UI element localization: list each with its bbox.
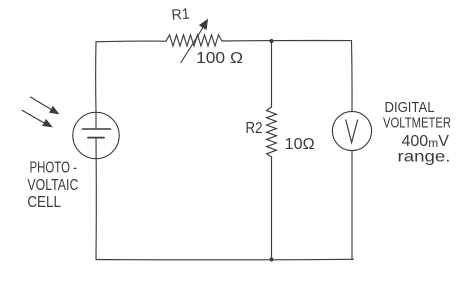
svg-text:VOLTMETER: VOLTMETER: [383, 115, 451, 132]
svg-text:PHOTO -: PHOTO -: [30, 159, 78, 176]
wire bottom rail: [96, 258, 354, 261]
svg-text:CELL: CELL: [27, 194, 61, 211]
cell long plate: [83, 128, 111, 130]
wire left vertical (bottom, from short plate to bottom rail): [95, 138, 97, 260]
cell short plate: [88, 137, 104, 139]
wire R2 branch bottom: [271, 157, 273, 260]
resistor R2 zigzag: [267, 107, 277, 157]
svg-text:R2: R2: [246, 120, 263, 137]
svg-text:400mV: 400mV: [402, 133, 450, 150]
R1 wiper arrow: [181, 19, 208, 62]
label DIGITAL VOLTMETER 400mV range: [383, 99, 451, 166]
node A junction dot (top of R2): [270, 39, 274, 43]
wire top-left segment: [96, 40, 166, 43]
photovoltaic cell circle: [73, 112, 119, 158]
voltmeter V glyph: [346, 120, 358, 143]
cell internal lead top: [95, 112, 97, 129]
wire right vertical (bottom): [351, 151, 353, 260]
wire right vertical (top): [351, 41, 354, 112]
light arrow 2: [22, 110, 52, 127]
wire left vertical (top): [95, 42, 97, 113]
svg-text:range.: range.: [398, 149, 451, 166]
light arrow 1: [31, 97, 59, 114]
svg-text:100 Ω: 100 Ω: [196, 50, 243, 67]
node B junction dot (bottom of R2): [270, 258, 274, 262]
voltmeter circle U1: [332, 111, 371, 150]
svg-text:R1: R1: [171, 5, 190, 24]
svg-text:DIGITAL: DIGITAL: [385, 99, 435, 116]
svg-text:VOLTAIC: VOLTAIC: [27, 177, 78, 194]
label PHOTO-VOLTAIC CELL: [27, 159, 78, 211]
svg-text:10Ω: 10Ω: [285, 136, 315, 153]
wire R2 branch top: [271, 41, 273, 107]
resistor R1 zigzag: [166, 35, 222, 46]
wire top-right segment: [222, 40, 352, 42]
